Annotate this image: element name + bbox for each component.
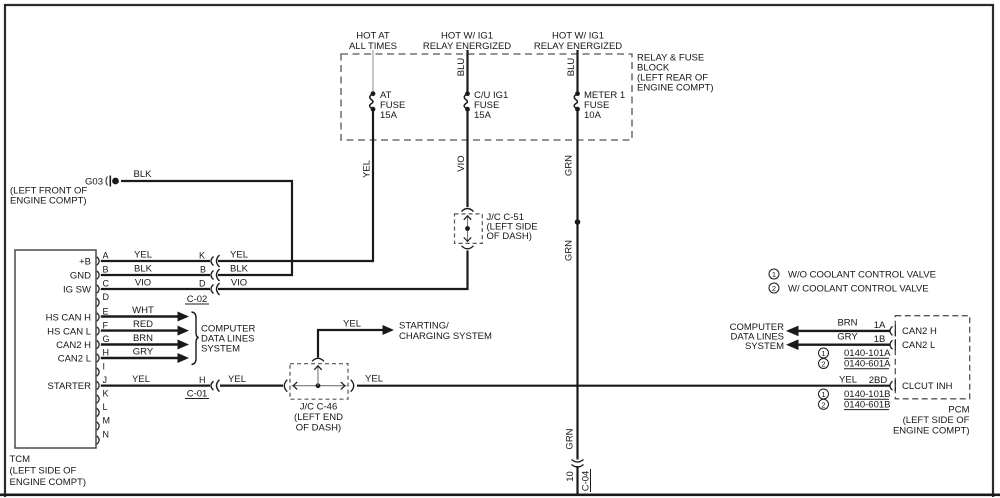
label AT FUSE 15A [380,90,405,121]
svg-text:1: 1 [772,270,776,279]
labels YEL BLK VIO (left of C-02) [134,250,153,289]
svg-text:HS CAN L: HS CAN L [47,326,91,337]
svg-text:+B: +B [79,256,91,267]
wire GRY CAN2 L with left arrow [797,344,890,346]
svg-text:YEL: YEL [365,374,383,385]
svg-text:OF DASH): OF DASH) [487,231,532,242]
svg-text:GRN: GRN [564,155,575,176]
PCM pin sockets [890,325,895,391]
labels YEL BLK VIO (right of C-02) [230,250,249,289]
svg-text:BLU: BLU [566,58,577,77]
svg-text:1B: 1B [874,334,886,345]
wire VIO from C/U fuse down to J/C C-51 [466,109,468,207]
svg-text:CLCUT INH: CLCUT INH [902,381,953,392]
svg-text:GRY: GRY [133,347,154,358]
wire STARTER YEL (pin J to C-01) [101,385,210,387]
svg-text:WHT: WHT [132,305,154,316]
wire BRN CAN2 H with left arrow [797,330,890,332]
svg-text:GRY: GRY [837,331,858,342]
connector C-01 arcs [211,380,220,392]
brace collector [192,312,199,365]
fuse F2 C/U IG1 FUSE 15A [464,91,470,111]
svg-text:BRN: BRN [837,318,857,329]
svg-text:HOT AT: HOT AT [356,31,390,42]
svg-text:J/C C-46: J/C C-46 [300,402,337,413]
label J/C C-51 (LEFT SIDE OF DASH) [487,212,538,242]
wire: BLU supply to C/U IG1 fuse [466,50,468,92]
label C-02 (underlined) [185,294,209,305]
svg-text:VIO: VIO [135,278,151,289]
connector C-04 (inline, vertical wire) [572,460,584,468]
svg-text:GRN: GRN [565,428,576,449]
svg-text:E: E [103,307,109,317]
svg-text:OF DASH): OF DASH) [296,423,341,434]
svg-text:10A: 10A [584,110,602,121]
labels WHT RED BRN GRY [132,305,154,358]
svg-text:1: 1 [821,349,825,358]
svg-text:IG SW: IG SW [63,284,91,295]
svg-text:YEL: YEL [230,250,248,261]
svg-text:15A: 15A [380,110,398,121]
svg-text:CAN2 H: CAN2 H [902,326,937,337]
svg-text:SYSTEM: SYSTEM [745,341,784,352]
svg-text:B: B [103,265,109,275]
relay & fuse block dashed box [341,54,632,140]
svg-text:C-02: C-02 [187,294,208,305]
wire YEL branch to starting/charging [318,330,385,358]
svg-text:(LEFT SIDE OF: (LEFT SIDE OF [903,415,970,426]
svg-text:D: D [103,292,110,302]
label TCM (LEFT SIDE OF ENGINE COMPT) [10,454,87,488]
svg-text:YEL: YEL [134,250,152,261]
wire BLK from G03 to row B [121,181,292,275]
svg-text:0140-601B: 0140-601B [844,400,890,411]
TCM pin letters [103,251,111,440]
svg-text:N: N [103,430,110,440]
svg-text:1: 1 [821,390,825,399]
svg-text:(LEFT SIDE OF: (LEFT SIDE OF [10,466,77,477]
label C/U IG1 FUSE 15A [474,90,508,121]
svg-text:YEL: YEL [839,374,857,385]
svg-text:HOT W/ IG1: HOT W/ IG1 [441,31,493,42]
svg-text:CHARGING SYSTEM: CHARGING SYSTEM [399,331,492,342]
svg-text:RED: RED [133,319,153,330]
svg-text:SYSTEM: SYSTEM [201,344,240,355]
svg-text:HS CAN H: HS CAN H [46,312,92,323]
wire HS CAN H WHT with arrow [101,315,179,317]
note 2 W/ COOLANT CONTROL VALVE [769,283,929,294]
label J/C C-46 (LEFT END OF DASH) [294,402,343,434]
label HOT W/ IG1 RELAY ENERGIZED (left) [423,31,511,53]
svg-text:0140-101A: 0140-101A [844,348,891,359]
label HOT W/ IG1 RELAY ENERGIZED (right) [534,31,622,53]
svg-text:0140-601A: 0140-601A [844,359,891,370]
connector C-02 arcs [211,255,220,295]
TCM internal pin labels [46,256,92,392]
C-02 pin letters K B D [199,251,206,289]
option codes 0140-101B [819,389,891,400]
svg-text:A: A [103,251,109,261]
option codes 0140-601A [819,359,892,370]
svg-text:HOT W/ IG1: HOT W/ IG1 [552,31,604,42]
svg-text:BLK: BLK [134,169,153,180]
svg-text:2: 2 [821,401,825,410]
svg-text:2: 2 [821,360,825,369]
label C-01 (underlined) [185,389,209,400]
svg-text:L: L [103,402,108,412]
svg-text:BLU: BLU [456,58,467,77]
svg-text:I: I [103,362,106,372]
svg-text:H: H [199,375,206,385]
label RELAY & FUSE BLOCK [637,53,714,94]
svg-text:VIO: VIO [231,278,247,289]
svg-text:YEL: YEL [228,374,246,385]
svg-text:W/O COOLANT CONTROL VALVE: W/O COOLANT CONTROL VALVE [788,269,936,280]
svg-text:15A: 15A [474,110,492,121]
wire: BLU supply to METER 1 fuse [576,50,578,92]
svg-text:CAN2 L: CAN2 L [902,340,935,351]
svg-text:CAN2 H: CAN2 H [56,340,91,351]
label METER 1 FUSE 10A [584,90,625,121]
ground G03 [85,176,119,188]
wire HS CAN L RED with arrow [101,329,179,331]
note 1 W/O COOLANT CONTROL VALVE [769,269,936,280]
label (LEFT FRONT OF ENGINE COMPT) [10,186,87,207]
label COMPUTER DATA LINES SYSTEM (PCM side) [730,322,785,352]
svg-text:ENGINE COMPT): ENGINE COMPT) [10,477,87,488]
svg-text:YEL: YEL [362,160,373,178]
wire: supply to AT fuse (thin) [372,50,374,92]
wire YEL from AT fuse down to row A [218,109,373,261]
label STARTING/CHARGING SYSTEM [399,321,492,343]
svg-text:YEL: YEL [132,374,150,385]
svg-text:(LEFT END: (LEFT END [294,412,343,423]
svg-text:TCM: TCM [10,454,31,465]
svg-text:F: F [103,321,109,331]
TCM box [15,250,96,448]
svg-text:G03: G03 [85,177,103,188]
svg-text:PCM: PCM [948,404,969,415]
splice junction on GRN [575,219,581,225]
svg-text:1A: 1A [874,320,886,331]
wire YEL C-01 to J/C C-46 [220,385,283,387]
PCM dashed box [895,316,969,399]
wire CAN2 H BRN with arrow [101,343,179,345]
label PCM (LEFT SIDE OF ENGINE COMPT) [893,404,970,436]
svg-text:K: K [103,389,109,399]
svg-text:C-01: C-01 [187,389,208,400]
svg-text:2BD: 2BD [869,375,888,386]
svg-text:GND: GND [70,270,91,281]
svg-text:BLK: BLK [230,264,249,275]
svg-text:M: M [103,416,111,426]
wire YEL C-46 to PCM (CLCUT INH) [357,385,890,387]
label HOT AT ALL TIMES [349,31,397,53]
svg-text:D: D [199,279,206,289]
wire GRN from METER fuse down to C-04 [576,109,578,459]
svg-text:W/ COOLANT CONTROL VALVE: W/ COOLANT CONTROL VALVE [788,283,929,294]
svg-text:ENGINE COMPT): ENGINE COMPT) [10,196,87,207]
svg-text:CAN2 L: CAN2 L [58,353,91,364]
wire CAN2 L GRY with arrow [101,357,179,359]
svg-text:GRN: GRN [564,240,575,261]
svg-text:H: H [103,348,110,358]
svg-text:G: G [103,334,110,344]
wire row C VIO [101,288,210,290]
svg-text:ENGINE COMPT): ENGINE COMPT) [893,425,970,436]
svg-text:C: C [103,279,110,289]
svg-text:B: B [200,265,206,275]
svg-text:K: K [199,251,205,261]
option codes 0140-601B [819,399,891,410]
TCM pin sockets A-N [97,257,99,444]
PCM internal labels [902,326,953,392]
wire GRN below C-04 [576,466,578,494]
junction connector J/C C-51 [455,209,483,249]
wire VIO from C-51 down to row C [218,251,468,290]
svg-text:BRN: BRN [133,333,153,344]
label COMPUTER DATA LINES SYSTEM (TCM side) [201,324,256,355]
wire row A YEL (pin A to C-02) [101,260,210,262]
bottom edge bar [0,494,1000,497]
option codes 0140-101A [819,348,892,359]
svg-text:ENGINE COMPT): ENGINE COMPT) [637,83,714,94]
svg-text:YEL: YEL [343,319,361,330]
svg-text:STARTER: STARTER [48,381,92,392]
svg-text:J: J [103,375,108,385]
svg-text:2: 2 [772,284,776,293]
fuse F1 AT FUSE 15A [370,91,376,111]
wire row B BLK [101,274,210,276]
svg-text:10: 10 [565,471,576,482]
svg-text:BLK: BLK [134,264,153,275]
svg-text:VIO: VIO [456,155,467,171]
junction connector J/C C-46 [284,358,353,399]
fuse F3 METER 1 FUSE 10A [574,91,580,111]
svg-text:STARTING/: STARTING/ [399,321,449,332]
label C-04 (vertical, underlined) [581,469,592,492]
